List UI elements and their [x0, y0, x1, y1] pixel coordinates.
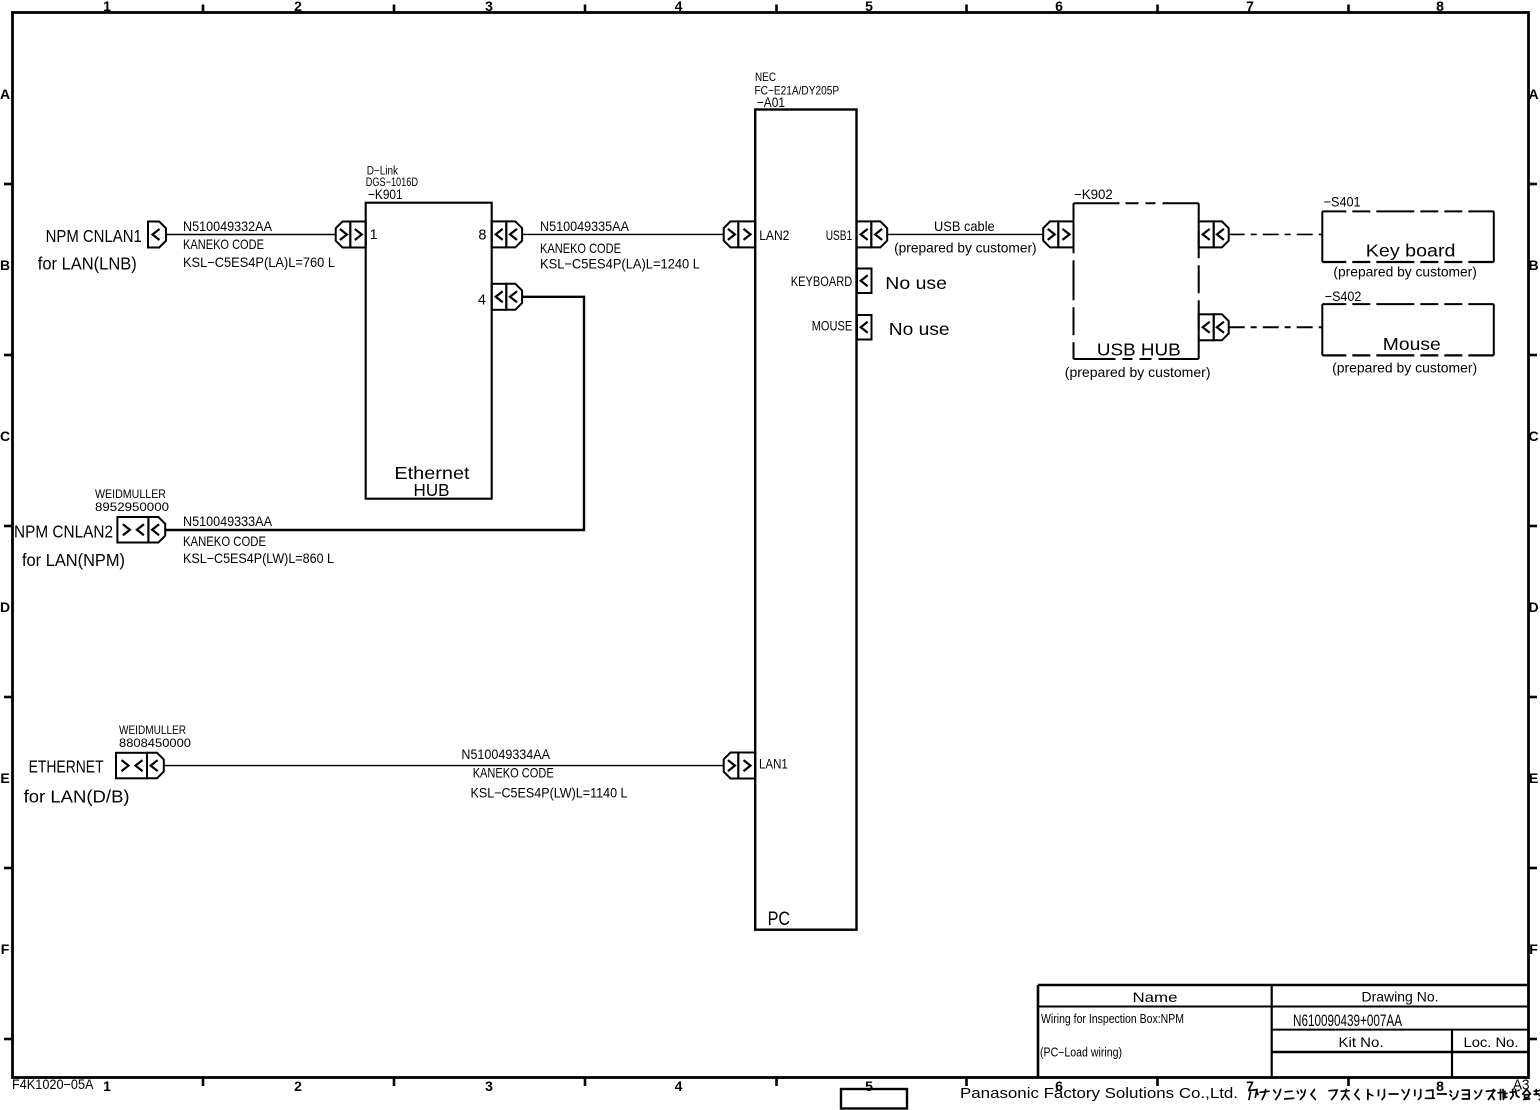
svg-text:KSL−C5ES4P(LA)L=1240 L: KSL−C5ES4P(LA)L=1240 L — [540, 255, 700, 271]
USB HUB K902 box — [1074, 203, 1199, 359]
svg-text:8: 8 — [1436, 0, 1444, 14]
mouse S402 box — [1322, 304, 1494, 355]
node NPM CNLAN1 label — [38, 226, 142, 274]
svg-text:(prepared by customer): (prepared by customer) — [894, 240, 1037, 256]
svg-text:E: E — [1529, 770, 1538, 786]
connector pair at PC LAN2 — [724, 221, 756, 247]
revision box — [841, 1089, 907, 1109]
wire USB HUB to mouse — [1229, 326, 1323, 328]
connector pair at USB HUB input — [1043, 221, 1073, 247]
svg-text:Drawing No.: Drawing No. — [1362, 989, 1439, 1005]
svg-text:N510049334AA: N510049334AA — [461, 746, 550, 762]
svg-text:No use: No use — [889, 319, 950, 339]
svg-text:Loc. No.: Loc. No. — [1464, 1034, 1519, 1050]
svg-text:2: 2 — [294, 1078, 302, 1094]
connector pair at PC LAN1 — [724, 753, 756, 779]
svg-text:5: 5 — [865, 0, 873, 14]
svg-text:MOUSE: MOUSE — [812, 319, 853, 334]
svg-text:for LAN(D/B): for LAN(D/B) — [24, 786, 130, 806]
wire HUB pin 8 to PC LAN2 — [522, 233, 724, 235]
svg-text:NPM CNLAN2: NPM CNLAN2 — [14, 522, 113, 542]
PC A01 box — [755, 110, 856, 931]
svg-text:N510049333AA: N510049333AA — [183, 513, 273, 529]
svg-text:LAN2: LAN2 — [759, 228, 789, 243]
svg-text:6: 6 — [1055, 0, 1063, 14]
svg-text:USB HUB: USB HUB — [1097, 340, 1181, 360]
ethernet hub K901 box — [366, 203, 492, 500]
svg-text:LAN1: LAN1 — [759, 757, 788, 772]
svg-text:HUB: HUB — [414, 480, 450, 500]
svg-text:3: 3 — [485, 1078, 493, 1094]
svg-text:for LAN(LNB): for LAN(LNB) — [38, 254, 137, 274]
svg-text:KSL−C5ES4P(LW)L=1140 L: KSL−C5ES4P(LW)L=1140 L — [471, 785, 628, 801]
connector pair at HUB pin 4 — [492, 284, 522, 310]
svg-text:D: D — [0, 599, 10, 615]
connector at PC MOUSE — [857, 315, 872, 340]
connector NPM CNLAN1 — [148, 222, 166, 248]
svg-text:2: 2 — [294, 0, 302, 14]
svg-text:N510049335AA: N510049335AA — [540, 218, 630, 234]
svg-text:4: 4 — [478, 293, 486, 309]
svg-text:A: A — [1528, 86, 1538, 102]
node NPM CNLAN2 label — [14, 487, 169, 570]
svg-text:F: F — [1529, 941, 1538, 957]
svg-text:F: F — [1, 941, 10, 957]
svg-text:Panasonic Factory Solutions Co: Panasonic Factory Solutions Co.,Ltd. — [960, 1085, 1238, 1102]
ethernet hub K901 label — [366, 166, 418, 203]
label USB cable — [894, 218, 1037, 256]
svg-text:NPM CNLAN1: NPM CNLAN1 — [46, 226, 142, 246]
svg-text:KANEKO CODE: KANEKO CODE — [473, 764, 554, 780]
svg-text:(prepared by customer): (prepared by customer) — [1332, 360, 1477, 376]
svg-text:1: 1 — [370, 226, 378, 242]
svg-text:C: C — [1528, 428, 1538, 444]
connector pair at HUB pin 1 — [336, 222, 366, 248]
connector pair at USB HUB port 1 — [1199, 221, 1229, 247]
svg-text:N510049332AA: N510049332AA — [183, 218, 273, 234]
svg-text:No use: No use — [885, 273, 947, 293]
connector pair at HUB pin 8 — [492, 221, 522, 247]
svg-text:B: B — [1528, 257, 1538, 273]
cable label N510049332AA — [183, 218, 335, 270]
keyboard S401 box — [1322, 211, 1494, 262]
svg-text:Kit No.: Kit No. — [1339, 1034, 1384, 1050]
svg-text:for LAN(NPM): for LAN(NPM) — [22, 550, 125, 570]
svg-text:1: 1 — [103, 1078, 111, 1094]
wire USB HUB to keyboard — [1229, 233, 1323, 235]
svg-text:F4K1020−05A: F4K1020−05A — [12, 1077, 94, 1092]
svg-text:ETHERNET: ETHERNET — [29, 757, 104, 777]
svg-text:−K901: −K901 — [368, 186, 403, 202]
svg-text:8952950000: 8952950000 — [95, 500, 169, 514]
svg-text:3: 3 — [485, 0, 493, 14]
svg-text:D: D — [1528, 599, 1538, 615]
svg-text:Name: Name — [1133, 989, 1178, 1005]
svg-text:Key board: Key board — [1366, 241, 1456, 261]
svg-text:8: 8 — [478, 228, 486, 244]
svg-text:1: 1 — [103, 0, 111, 14]
svg-text:(prepared by customer): (prepared by customer) — [1065, 364, 1211, 380]
svg-text:KSL−C5ES4P(LA)L=760 L: KSL−C5ES4P(LA)L=760 L — [183, 254, 335, 270]
svg-text:KEYBOARD: KEYBOARD — [791, 274, 853, 289]
svg-text:KANEKO CODE: KANEKO CODE — [183, 533, 266, 549]
svg-text:USB cable: USB cable — [934, 218, 995, 234]
svg-text:N610090439+007AA: N610090439+007AA — [1293, 1012, 1402, 1030]
svg-text:KSL−C5ES4P(LW)L=860 L: KSL−C5ES4P(LW)L=860 L — [183, 550, 334, 566]
company name japanese — [1249, 1090, 1540, 1100]
svg-text:−K902: −K902 — [1074, 186, 1113, 202]
connector pair at PC USB1 — [857, 221, 888, 247]
node ETHERNET label — [24, 723, 192, 806]
wire ETHERNET to PC LAN1 — [164, 765, 724, 767]
connector NPM CNLAN2 — [117, 517, 165, 543]
svg-text:E: E — [0, 770, 9, 786]
svg-text:Wiring for Inspection Box:NPM: Wiring for Inspection Box:NPM — [1041, 1012, 1184, 1026]
svg-text:7: 7 — [1246, 0, 1254, 14]
svg-text:(PC−Load wiring): (PC−Load wiring) — [1040, 1046, 1122, 1060]
PC A01 label — [755, 70, 840, 110]
svg-text:KANEKO CODE: KANEKO CODE — [183, 236, 264, 252]
svg-text:KANEKO CODE: KANEKO CODE — [540, 240, 621, 256]
connector ETHERNET — [116, 753, 164, 779]
svg-text:A: A — [0, 86, 10, 102]
svg-text:B: B — [0, 257, 10, 273]
svg-text:5: 5 — [865, 1078, 873, 1094]
connector pair at USB HUB port 2 — [1199, 314, 1229, 340]
title block — [1038, 985, 1529, 1078]
svg-text:−A01: −A01 — [757, 94, 785, 110]
svg-text:USB1: USB1 — [826, 228, 853, 243]
svg-text:WEIDMULLER: WEIDMULLER — [95, 487, 166, 501]
svg-text:NEC: NEC — [755, 70, 776, 84]
svg-text:4: 4 — [675, 1078, 683, 1094]
wire PC USB1 to USB HUB — [887, 233, 1043, 235]
cable label N510049333AA — [183, 513, 334, 566]
connector at PC KEYBOARD — [857, 269, 872, 294]
wire CNLAN1 to HUB pin 1 — [166, 234, 336, 236]
svg-text:−S402: −S402 — [1325, 288, 1362, 304]
svg-text:(prepared by customer): (prepared by customer) — [1333, 264, 1477, 280]
svg-text:8808450000: 8808450000 — [119, 736, 191, 750]
svg-text:D−Link: D−Link — [367, 166, 399, 178]
cable label N510049335AA — [540, 218, 700, 271]
svg-text:PC: PC — [768, 908, 790, 930]
cable label N510049334AA — [461, 746, 627, 801]
svg-text:4: 4 — [675, 0, 683, 14]
svg-text:−S401: −S401 — [1324, 194, 1361, 210]
svg-text:C: C — [0, 428, 10, 444]
wire CNLAN2 to HUB pin 4 — [165, 297, 584, 530]
svg-text:8: 8 — [1436, 1078, 1444, 1094]
svg-text:Mouse: Mouse — [1383, 334, 1441, 354]
